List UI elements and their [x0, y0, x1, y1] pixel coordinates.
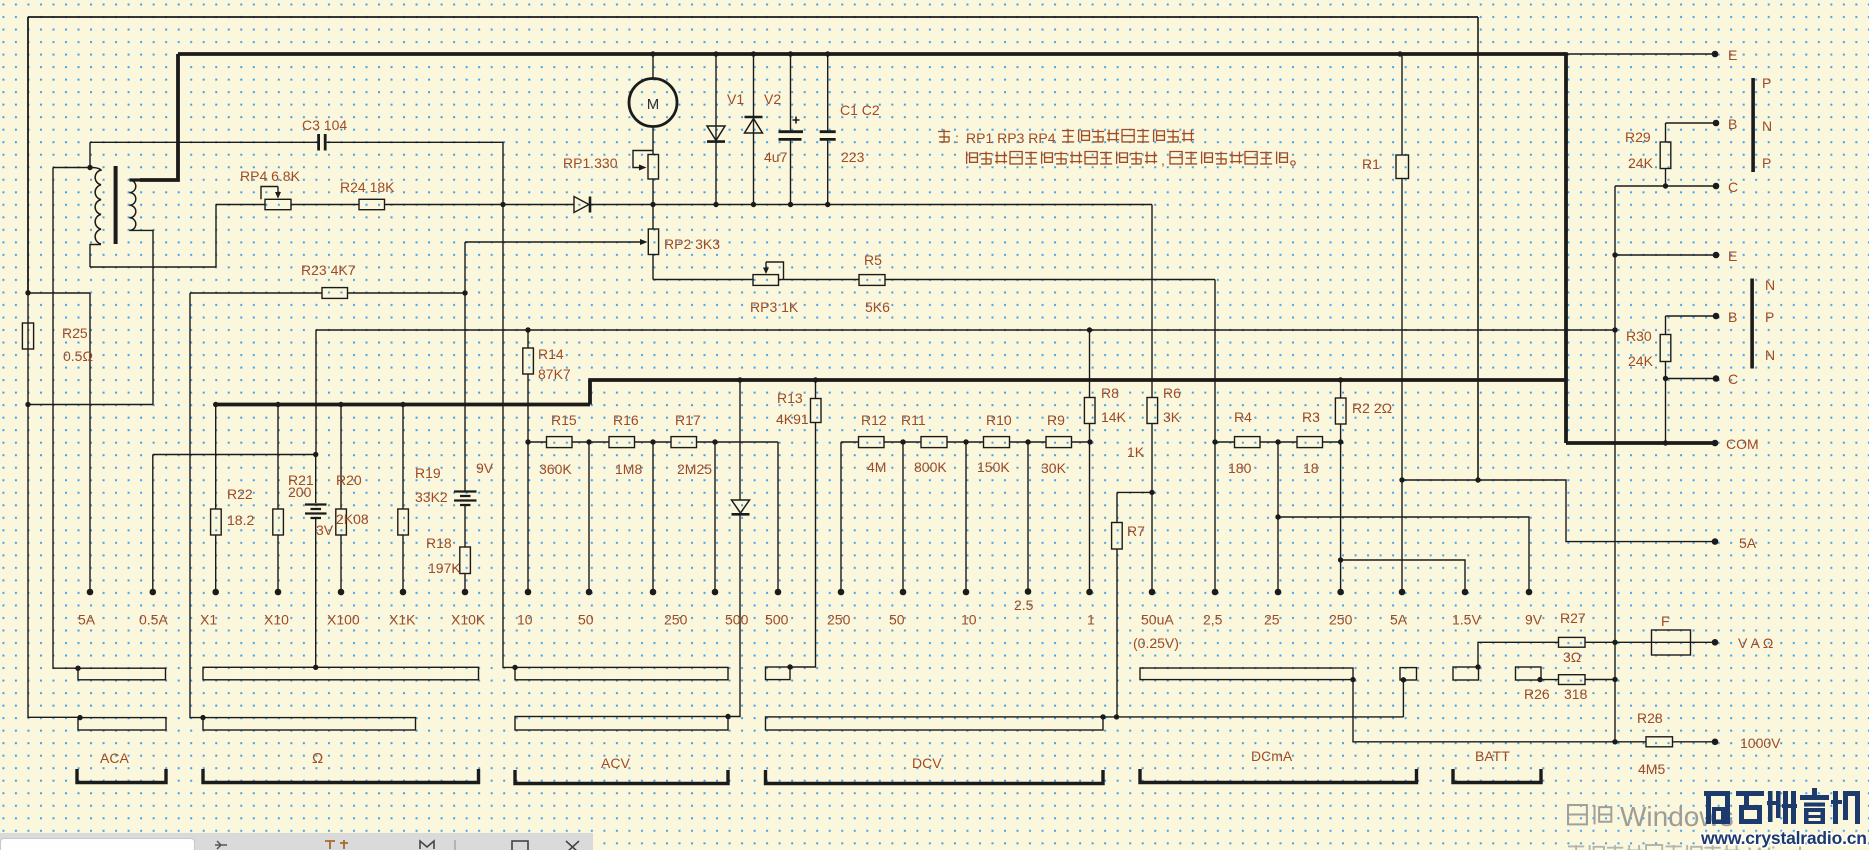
potentiometer RP2 3K3	[652, 205, 654, 230]
node R1-y480	[1399, 477, 1404, 482]
node R8 tap	[1087, 327, 1092, 332]
node R30-C2	[1663, 376, 1668, 381]
terminal 5A right	[1712, 538, 1719, 545]
wire C3 right to x503	[327, 142, 503, 204]
node junctions on y204 wire	[650, 202, 655, 207]
wire y293 stub left	[28, 292, 90, 294]
selector position terminals	[87, 589, 94, 596]
wire RP3 to R5	[779, 279, 860, 281]
node x28-y404	[25, 402, 30, 407]
bracket DCV	[766, 770, 1104, 784]
potentiometer RP4	[265, 199, 291, 209]
wire thick right vertical x1566	[1564, 52, 1568, 443]
terminal COM	[1712, 440, 1719, 447]
node x1215 ladder junction	[1212, 439, 1217, 444]
wire x28 mid segment	[27, 293, 29, 405]
resistor R18 197K	[460, 547, 471, 574]
motor M1	[629, 79, 677, 127]
wire 25 drop x1278	[1277, 442, 1279, 592]
svg-text:www.crystalradio.cn: www.crystalradio.cn	[1700, 828, 1867, 848]
wire RP2 to RP3	[653, 279, 753, 281]
wire top frame	[28, 16, 1478, 18]
wire C2 terminal	[1666, 378, 1717, 380]
node 25-9V tap	[1275, 514, 1280, 519]
switch wafer DCV lower	[766, 717, 1104, 730]
wire DCV ladder start	[840, 442, 842, 592]
capacitor C1 electrolytic	[790, 54, 792, 130]
node bus-diode junction	[737, 377, 742, 382]
node bus end	[213, 402, 218, 407]
terminal B2	[1713, 313, 1720, 320]
node bus-R21	[275, 402, 280, 407]
wire RP1 to y204	[652, 179, 654, 205]
wire x1615 long vertical	[1614, 186, 1616, 742]
wire secondary top lead	[130, 178, 142, 181]
wire DCmA wafer to 1000V line	[1353, 680, 1646, 742]
node bus-R20	[338, 402, 343, 407]
node R3-R2 junction	[1275, 439, 1280, 444]
switch wafer ACA lower	[78, 718, 166, 730]
resistor R27 3ohm	[1559, 637, 1586, 647]
socket bar NPN	[1750, 279, 1754, 369]
node DCV ladder junctions	[900, 439, 905, 444]
resistor R24	[359, 199, 385, 209]
switch contact DCV upper	[766, 667, 791, 680]
node transformer top junction	[87, 165, 92, 170]
wire RP4 row y204	[216, 204, 265, 206]
DCV range drops	[902, 442, 904, 592]
wire x90 down to 5A terminal	[89, 293, 91, 592]
resistor R15 360K	[547, 437, 573, 448]
wire R24 to diode	[385, 204, 575, 206]
capacitor C3	[319, 134, 326, 151]
terminal B1	[1713, 120, 1720, 127]
resistor R3 18	[1297, 437, 1323, 448]
wire BATT2 up to R27	[1478, 642, 1559, 667]
wire x503 down to ACV wafer	[503, 205, 515, 668]
potentiometer RP3 1K	[753, 275, 779, 286]
wire B1 / resistor R29 24K	[1666, 122, 1717, 124]
terminal 1000V	[1712, 739, 1719, 746]
note line 1	[938, 130, 950, 142]
transformer T1 core	[114, 166, 118, 244]
wire B2 / resistor R30 24K	[1666, 315, 1717, 317]
wire right frame vertical x1478	[1477, 17, 1479, 480]
wire R7 branch	[1117, 491, 1152, 493]
wire y517 to 9V batt terminal	[1278, 517, 1529, 592]
node bus-R19	[400, 402, 405, 407]
toolbar white input box	[0, 838, 195, 850]
wire E1	[1566, 53, 1715, 55]
wire thick bus step x590	[588, 380, 592, 405]
transformer secondary winding (right)	[130, 180, 136, 230]
wire x1215 down to DCmA ladder	[1214, 280, 1216, 593]
wire DCV lower to BATT contact	[1103, 716, 1403, 718]
resistor R23 4K7	[190, 292, 322, 294]
node R14 tap	[525, 327, 530, 332]
wire x316 down to battery	[315, 330, 317, 455]
switch contact BATT 3	[1516, 667, 1542, 680]
wire C1 terminal	[1615, 185, 1716, 187]
node junctions on thick bus y54	[650, 51, 655, 56]
diode VD2	[732, 500, 750, 513]
ACV range drops	[588, 442, 590, 592]
wire thick COM horizontal	[1566, 441, 1716, 445]
wire C3 left	[90, 141, 317, 143]
wire 500V drop x778	[777, 442, 779, 592]
resistor R16 1M8	[609, 437, 635, 448]
capacitor C2	[827, 54, 829, 130]
resistor R1	[1401, 54, 1403, 155]
wire E2	[1615, 254, 1716, 256]
resistor R11 800K	[921, 437, 947, 448]
wire R5 to x1215	[885, 279, 1215, 281]
socket bar PNP	[1751, 78, 1755, 172]
resistor R14 87K7	[527, 330, 529, 348]
resistor R26 318	[1559, 675, 1586, 685]
node battery top junction	[313, 452, 318, 457]
toolbar strip bottom	[0, 833, 593, 850]
fuse F	[1652, 630, 1691, 655]
diode VD1	[574, 197, 589, 213]
node x1615-E2	[1612, 252, 1617, 257]
transformer primary winding (left)	[90, 168, 101, 245]
bracket DCmA	[1140, 769, 1417, 783]
node R23-RP2 junction	[462, 290, 467, 295]
node y293 stub	[25, 290, 30, 295]
resistor R5 5K6	[859, 275, 885, 286]
node bus-R2 junction	[1338, 377, 1343, 382]
note line 2	[967, 152, 978, 164]
wire x28 lower to ACA wafer	[28, 405, 80, 718]
wire M to RP1	[652, 127, 654, 155]
node 250-1.5V tap	[1338, 557, 1343, 562]
wire y480 R1 to 5A	[1402, 480, 1715, 542]
wire x216 up to RP4 wire	[215, 205, 217, 268]
resistor R25 0.5ohm	[22, 323, 33, 349]
wire thick measurement bus y404	[214, 403, 590, 407]
bracket ACV	[515, 770, 728, 784]
terminal C2	[1713, 375, 1720, 382]
switch wafer DCmA upper	[1140, 668, 1353, 680]
switch contact BATT 2	[1453, 667, 1479, 680]
wire y454 to 0.5A	[153, 454, 316, 456]
wire BATT1 down	[1402, 680, 1404, 717]
wire x53 down to ACA upper wafer	[53, 168, 78, 669]
resistor R20 2K08	[340, 405, 342, 510]
battery GB1 3V	[315, 455, 317, 504]
node x1615-y330	[1612, 327, 1617, 332]
wire measurement net y330	[316, 329, 1615, 331]
terminal C1	[1713, 183, 1720, 190]
node bus-R13 junction	[813, 377, 818, 382]
node x1615-R27	[1612, 640, 1617, 645]
switch contact BATT 1	[1400, 668, 1417, 680]
node frame-y480	[1475, 477, 1480, 482]
wire y560 to 1.5V terminal	[1341, 560, 1465, 592]
resistor R19 33K2	[402, 405, 404, 510]
wire RP2 wiper from x465	[464, 242, 466, 293]
logo kuangshi shouyinji	[1704, 791, 1730, 796]
wire ACV ladder y442	[528, 441, 547, 443]
resistor R22 18.2	[215, 405, 217, 510]
resistor R7 1K	[1116, 492, 1118, 522]
resistor R21 200	[277, 405, 279, 510]
wire thick top bus y54	[178, 52, 1566, 56]
zener V2	[753, 54, 755, 205]
wire to fuse	[1615, 641, 1652, 643]
resistor R4 180	[1235, 437, 1261, 448]
node ladder junctions	[525, 439, 530, 444]
wire RP4 to R24	[291, 204, 359, 206]
switch wafer ACA upper	[78, 668, 166, 680]
wire thick bus y380	[588, 378, 1566, 382]
wire transformer bottom frame y267	[90, 266, 216, 268]
switch wafer ACV upper	[515, 667, 728, 679]
switch wafer ohm upper	[203, 667, 479, 680]
resistor R2 2ohm	[1340, 380, 1342, 398]
wire left frame vertical x28	[27, 17, 29, 292]
wire transformer to x53	[53, 167, 90, 169]
bracket ohm	[203, 769, 479, 783]
wire y404 thin left	[28, 404, 153, 406]
resistor R6 3K on x1152	[1147, 398, 1158, 424]
potentiometer RP1 330	[648, 155, 659, 180]
node R29-C1	[1663, 183, 1668, 188]
diode V1	[715, 54, 717, 205]
node R30-COM junction	[1663, 440, 1668, 445]
terminal E2	[1713, 252, 1720, 259]
resistor R10 150K	[984, 437, 1010, 448]
resistor R28 4M5	[1646, 737, 1673, 747]
node x1615-R26	[1612, 677, 1617, 682]
wire thick corner to transformer	[140, 54, 178, 180]
wire diode branch from bus	[739, 380, 741, 500]
wire M drop from bus	[652, 54, 654, 79]
resistor R17 2M25	[671, 437, 697, 448]
wire diode to corner x1152	[590, 204, 1152, 206]
wire to R4	[1215, 441, 1235, 443]
switch wafer ACV lower	[515, 717, 728, 731]
battery GB2 9V	[464, 293, 466, 491]
resistor R9 30K	[1046, 437, 1072, 448]
bracket ACA	[77, 769, 166, 783]
node R6-R7 junction	[1149, 490, 1154, 495]
toolbar icons	[0, 832, 600, 850]
bracket BATT	[1453, 769, 1541, 783]
resistor R8 14K	[1089, 330, 1091, 398]
terminal E1	[1712, 51, 1719, 58]
wire C3 leg down to transformer	[89, 142, 91, 167]
wire secondary bottom lead to x153	[130, 230, 154, 404]
terminal VAohm	[1712, 639, 1719, 646]
node x1615-1000V	[1612, 739, 1617, 744]
wire x190 down to ohm wafer	[190, 293, 203, 718]
resistor R13 4K91	[815, 380, 817, 399]
resistor R12 4M	[859, 437, 885, 448]
wire x1152 down to R6	[1151, 205, 1153, 398]
wire BATT3 to R26	[1540, 679, 1559, 681]
node x503 junction on y204	[500, 202, 505, 207]
switch wafer ohm lower	[203, 718, 416, 730]
